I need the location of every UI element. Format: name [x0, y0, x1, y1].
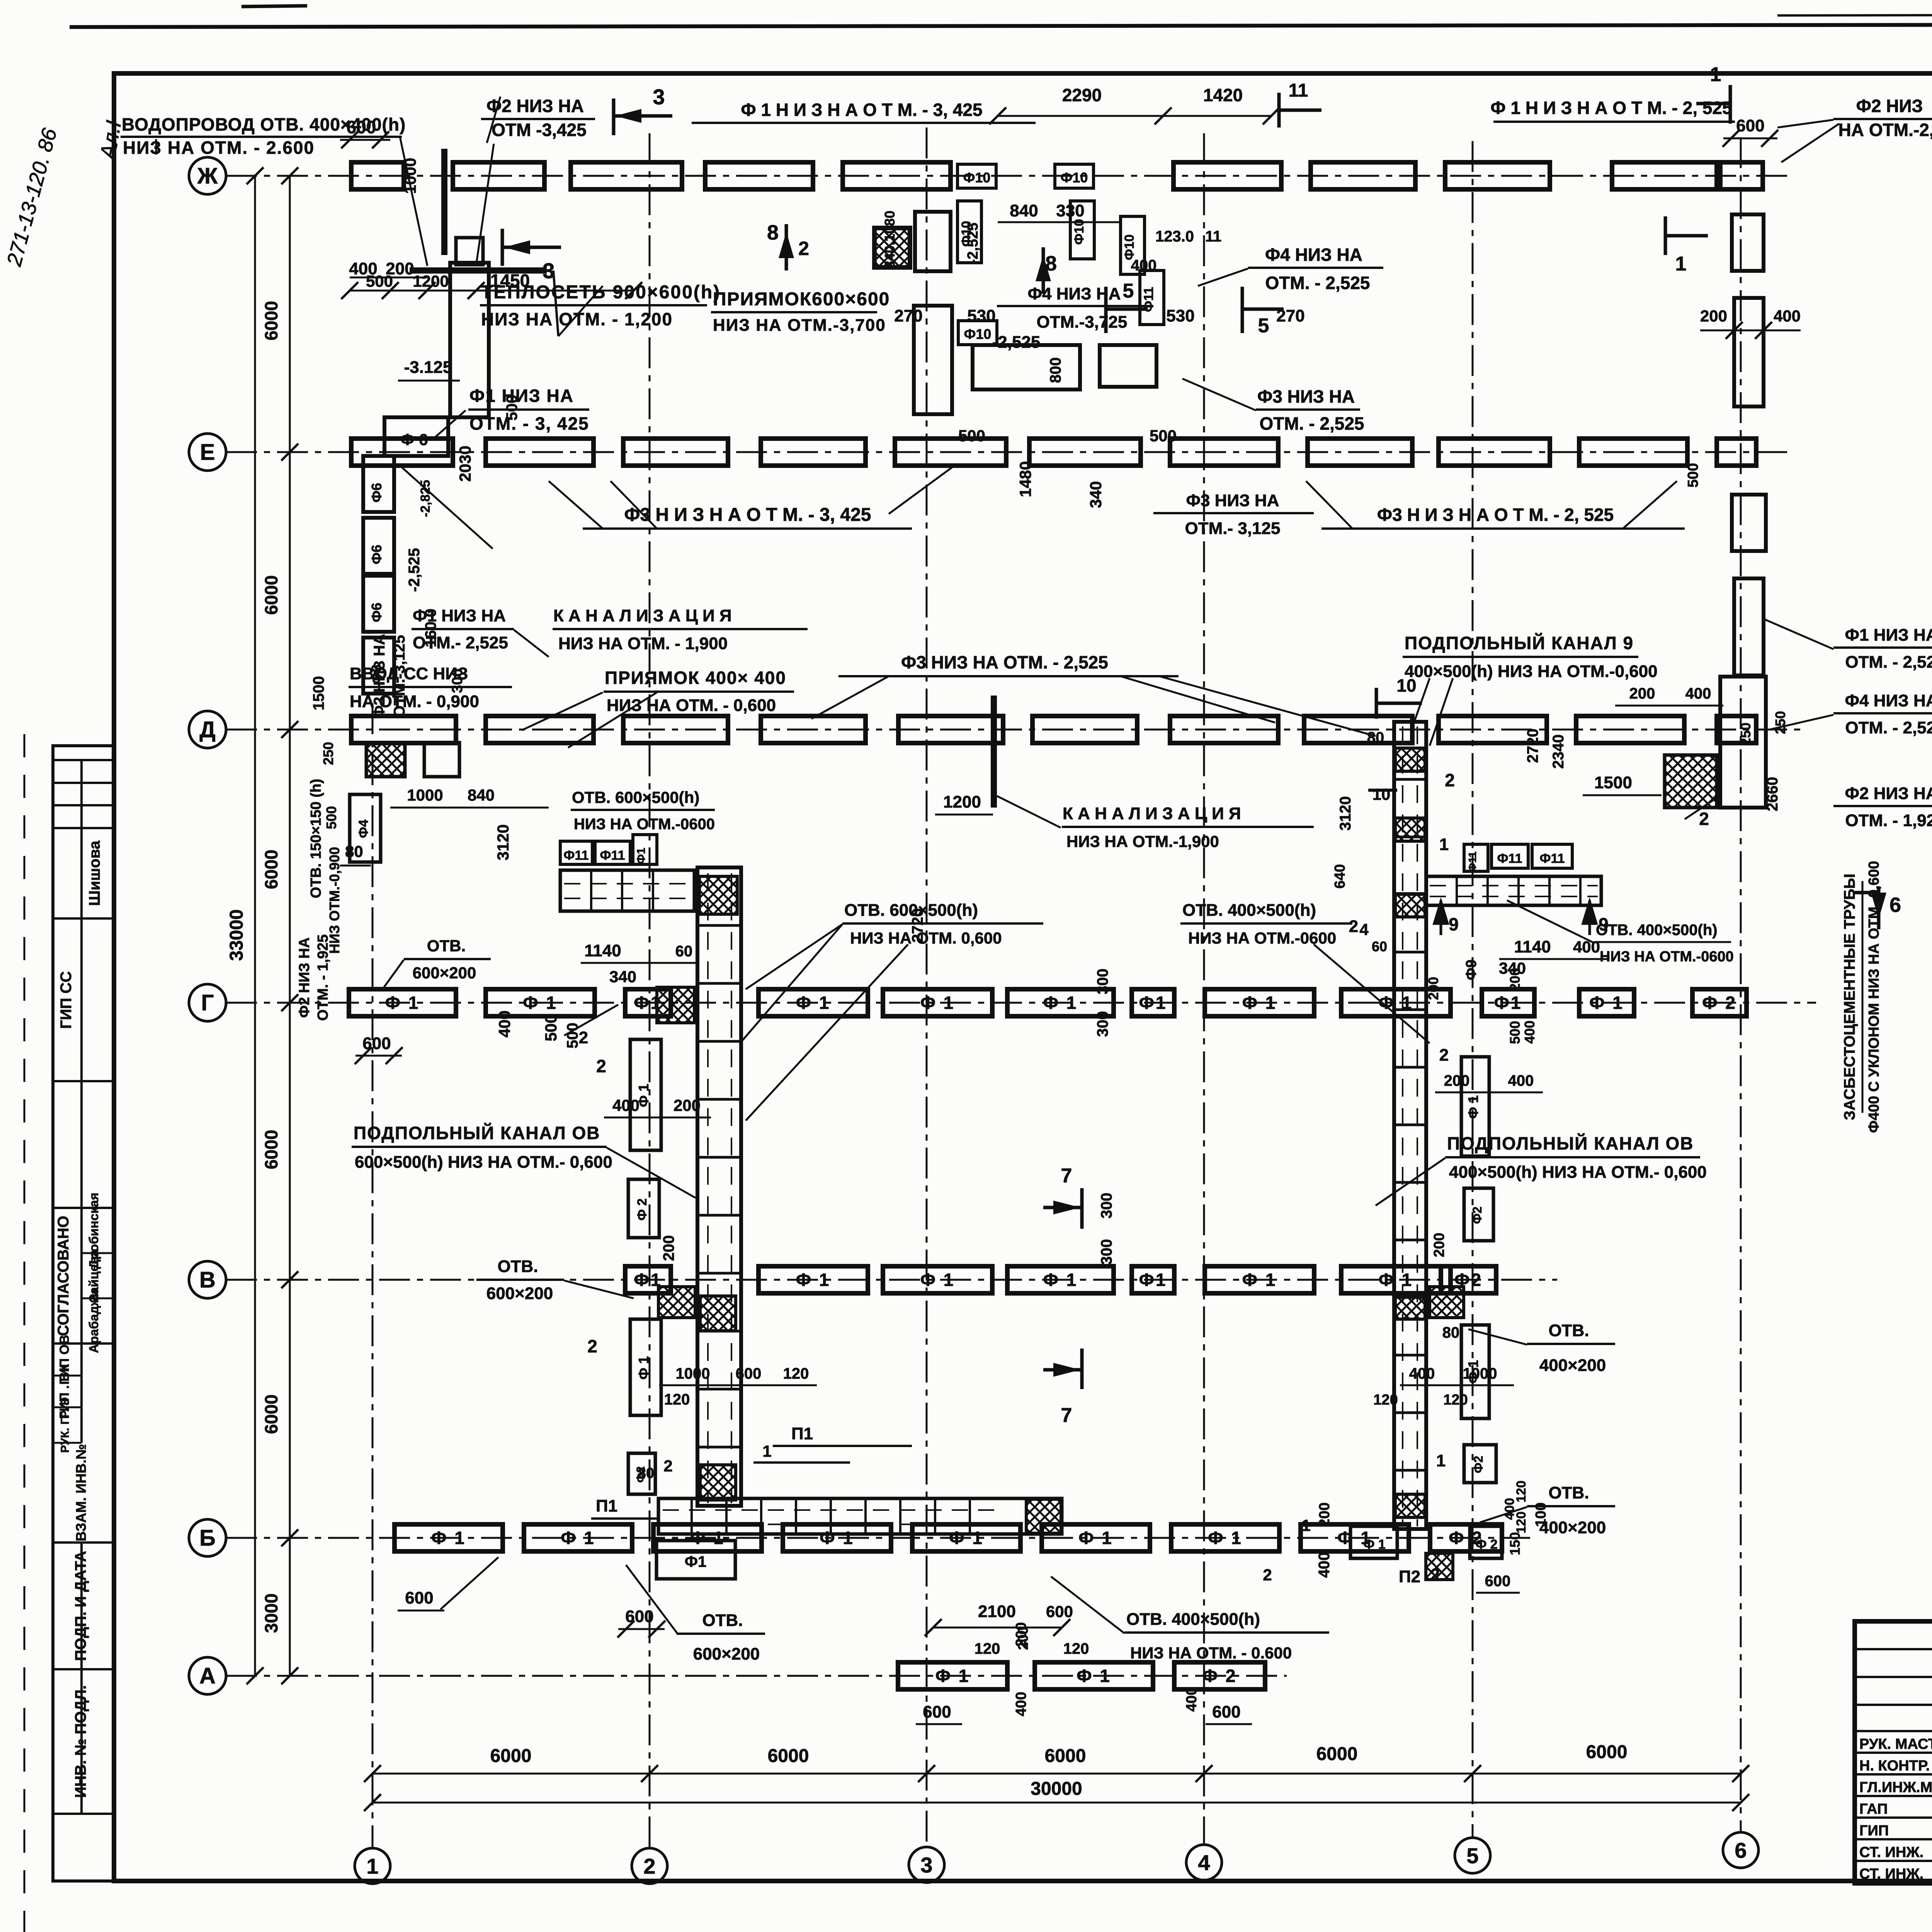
flag 6 arrow: [1877, 887, 1881, 929]
svg-text:1500: 1500: [1594, 773, 1632, 792]
svg-text:РУК. ГР. Э: РУК. ГР. Э: [59, 1397, 71, 1453]
svg-text:СОГЛАСОВАНО: СОГЛАСОВАНО: [55, 1216, 72, 1336]
svg-text:6000: 6000: [261, 575, 281, 615]
svg-text:ОТВ. 150×150 (h): ОТВ. 150×150 (h): [308, 779, 324, 898]
svg-text:ГИП: ГИП: [1859, 1823, 1889, 1839]
svg-text:400: 400: [612, 1096, 639, 1114]
svg-text:600: 600: [1046, 1602, 1073, 1621]
Ф10 small boxes: [957, 164, 996, 188]
svg-text:640: 640: [1332, 864, 1348, 888]
Ф6 vertical stack: [363, 456, 394, 512]
section flag 3 top: [612, 99, 616, 135]
svg-text:Ф 1: Ф 1: [920, 1270, 955, 1290]
svg-text:СТ. ИНЖ.: СТ. ИНЖ.: [1859, 1844, 1923, 1861]
svg-text:ОТВ. 400×500(h): ОТВ. 400×500(h): [1596, 922, 1718, 939]
svg-text:Ф 1: Ф 1: [1363, 1537, 1385, 1552]
hatch pit row В axis5: [1430, 1287, 1464, 1318]
svg-text:600×200: 600×200: [413, 964, 476, 982]
svg-text:1420: 1420: [1203, 85, 1243, 105]
svg-text:Шишова: Шишова: [86, 840, 103, 906]
svg-text:500: 500: [958, 427, 985, 445]
svg-text:ГЛ.ИНЖ.М: ГЛ.ИНЖ.М: [1859, 1779, 1932, 1796]
svg-text:НИЗ НА ОТМ.-1,900: НИЗ НА ОТМ.-1,900: [1066, 832, 1219, 850]
svg-text:400: 400: [1685, 685, 1711, 702]
svg-text:10: 10: [1396, 675, 1416, 696]
svg-text:Н. КОНТР.: Н. КОНТР.: [1859, 1758, 1930, 1774]
axis 4: [1203, 133, 1205, 1845]
svg-text:Ф10: Ф10: [1122, 235, 1137, 260]
svg-text:НИЗ НА ОТМ. - 1,200: НИЗ НА ОТМ. - 1,200: [481, 309, 673, 329]
svg-text:400×200: 400×200: [1539, 1356, 1606, 1375]
svg-text:ОТМ. - 2,525: ОТМ. - 2,525: [1845, 718, 1932, 737]
svg-text:1480: 1480: [1016, 461, 1034, 497]
svg-text:Д: Д: [199, 717, 215, 742]
side blocks along axis-2 wall: [630, 1039, 661, 1150]
svg-text:Ф 1: Ф 1: [523, 993, 558, 1013]
axis 5: [1472, 141, 1474, 1838]
svg-text:Ф 2: Ф 2: [1475, 1537, 1497, 1552]
svg-text:В: В: [199, 1267, 216, 1293]
svg-text:НИЗ НА ОТМ. - 0,600: НИЗ НА ОТМ. - 0,600: [607, 696, 776, 715]
svg-text:НИЗ НА ОТМ. 0,600: НИЗ НА ОТМ. 0,600: [850, 929, 1002, 947]
svg-text:6: 6: [1735, 1838, 1747, 1862]
svg-text:НА ОТМ.-2,525: НА ОТМ.-2,525: [1838, 120, 1932, 140]
axis Б: [226, 1537, 1530, 1539]
top border parallel line: [1777, 14, 1932, 15]
svg-text:ОТМ. - 2,525: ОТМ. - 2,525: [1845, 653, 1932, 672]
svg-text:600×200: 600×200: [693, 1645, 760, 1663]
svg-text:1000: 1000: [401, 158, 419, 194]
теплосеть thick crossing: [441, 149, 447, 255]
svg-text:11: 11: [1289, 80, 1308, 101]
svg-text:ИНВ. № ПОДЛ.: ИНВ. № ПОДЛ.: [72, 1685, 89, 1798]
svg-text:РУК. МАСТ: РУК. МАСТ: [1859, 1736, 1932, 1752]
svg-text:Ф400 С УКЛОНОМ НИЗ НА ОТМ.-0,: Ф400 С УКЛОНОМ НИЗ НА ОТМ.-0,600: [1866, 861, 1882, 1133]
svg-text:ОТВ.: ОТВ.: [1548, 1483, 1589, 1502]
hatch pits in channel axis 2: [699, 876, 737, 914]
svg-text:6000: 6000: [1316, 1744, 1358, 1764]
svg-text:3: 3: [653, 85, 665, 109]
svg-text:2: 2: [1699, 809, 1709, 829]
svg-text:300: 300: [1094, 969, 1111, 995]
svg-text:ОТВ.: ОТВ.: [427, 937, 466, 955]
svg-text:1: 1: [366, 1854, 378, 1878]
svg-text:200: 200: [1013, 1622, 1029, 1646]
svg-text:840: 840: [1010, 201, 1038, 220]
flag 1 lower right: [1664, 216, 1667, 255]
svg-text:ВЗАМ. ИНВ.№: ВЗАМ. ИНВ.№: [73, 1444, 89, 1541]
svg-text:ОТМ. - 1,925: ОТМ. - 1,925: [315, 934, 331, 1021]
svg-text:2: 2: [1349, 917, 1358, 936]
svg-text:600: 600: [1485, 1573, 1511, 1590]
svg-text:800: 800: [1047, 357, 1064, 383]
axis Е: [226, 451, 1793, 453]
axis В: [226, 1279, 1557, 1281]
svg-text:1: 1: [1675, 253, 1687, 275]
svg-text:Ф 1 Н И З Н А О: Ф 1 Н И З Н А О Т М. - 2, 525: [1490, 98, 1732, 118]
svg-text:400: 400: [1573, 938, 1600, 956]
left dim line outer: [254, 176, 256, 1676]
flags 5: [1104, 287, 1108, 333]
svg-text:10: 10: [1372, 785, 1391, 803]
svg-text:Ф 1: Ф 1: [935, 1666, 970, 1686]
svg-text:ПОДПОЛЬНЫЙ КАНАЛ ОВ: ПОДПОЛЬНЫЙ КАНАЛ ОВ: [354, 1123, 600, 1143]
svg-text:Ф 2: Ф 2: [635, 1198, 650, 1220]
svg-text:Ф 1: Ф 1: [1077, 1666, 1111, 1686]
axis 2: [649, 133, 651, 1848]
svg-text:600: 600: [923, 1702, 951, 1721]
underground channel wall on axis 5: [1394, 722, 1426, 1529]
svg-text:400×500(h) НИЗ НА ОТМ.-0,600: 400×500(h) НИЗ НА ОТМ.-0,600: [1405, 662, 1658, 681]
svg-text:1: 1: [1710, 63, 1721, 86]
svg-text:Ф 1: Ф 1: [920, 993, 955, 1013]
svg-text:ОТВ.: ОТВ.: [1548, 1321, 1589, 1340]
svg-text:4: 4: [1198, 1850, 1210, 1875]
svg-text:ОТВ. 600×500(h): ОТВ. 600×500(h): [844, 901, 978, 920]
svg-text:7: 7: [1061, 1404, 1072, 1427]
теплосеть leader: [558, 286, 603, 336]
svg-text:2: 2: [596, 1056, 606, 1076]
svg-text:2: 2: [643, 1854, 655, 1878]
Ф11 boxes row left: [560, 841, 592, 864]
svg-text:500: 500: [1507, 1021, 1523, 1044]
svg-text:Ф4: Ф4: [356, 820, 371, 838]
svg-text:ГИП СС: ГИП СС: [58, 971, 75, 1029]
svg-text:Ф2: Ф2: [1470, 1206, 1484, 1224]
svg-text:-2,525: -2,525: [992, 333, 1041, 352]
svg-text:5: 5: [1258, 315, 1269, 337]
svg-text:-2,525: -2,525: [406, 548, 423, 592]
svg-text:200: 200: [1629, 685, 1655, 702]
Ф11 boxes row right: [1464, 844, 1488, 871]
svg-text:ЗАСБЕСТОЦЕМЕНТНЫЕ ТРУБЫ: ЗАСБЕСТОЦЕМЕНТНЫЕ ТРУБЫ: [1841, 874, 1858, 1120]
svg-text:Ф3 НИЗ НА: Ф3 НИЗ НА: [1186, 491, 1279, 510]
hatch pits in channel axis 5: [1395, 748, 1425, 771]
svg-text:400: 400: [1774, 307, 1801, 325]
svg-text:ОТВ. 400×500(h): ОТВ. 400×500(h): [1126, 1610, 1260, 1629]
svg-text:НА ОТМ. - 0,900: НА ОТМ. - 0,900: [350, 692, 479, 711]
svg-text:Ф2 НИЗ: Ф2 НИЗ: [1856, 96, 1923, 116]
svg-text:2340: 2340: [1550, 735, 1567, 769]
svg-text:Ф 1: Ф 1: [820, 1528, 854, 1548]
svg-text:60: 60: [1372, 939, 1387, 954]
svg-text:3000: 3000: [261, 1594, 281, 1633]
svg-text:400: 400: [1508, 1072, 1534, 1089]
svg-text:ОТМ.- 2,525: ОТМ.- 2,525: [413, 633, 508, 652]
svg-text:Ф1: Ф1: [1494, 993, 1522, 1013]
svg-text:80: 80: [1367, 729, 1384, 746]
svg-text:1200: 1200: [943, 793, 981, 811]
svg-text:Б: Б: [199, 1526, 216, 1551]
svg-text:300: 300: [1098, 1193, 1115, 1219]
svg-text:Ф3 НИЗ НА ОТМ. - 2,525: Ф3 НИЗ НА ОТМ. - 2,525: [901, 652, 1108, 672]
svg-text:Ф6: Ф6: [369, 603, 384, 622]
svg-text:500: 500: [542, 1014, 560, 1041]
svg-text:ОТМ.- 3,125: ОТМ.- 3,125: [1185, 519, 1281, 538]
svg-text:1: 1: [1439, 835, 1449, 854]
svg-text:К А Н А Л И З А Ц И Я: К А Н А Л И З А Ц И Я: [1063, 804, 1241, 823]
svg-text:120: 120: [1063, 1640, 1089, 1657]
svg-text:НИЗ НА ОТМ.-0600: НИЗ НА ОТМ.-0600: [574, 816, 715, 833]
side blocks along axis-5 wall: [1461, 1057, 1489, 1156]
svg-text:ПРИЯМОК600×600: ПРИЯМОК600×600: [713, 289, 890, 310]
svg-text:ПОДПОЛЬНЫЙ КАНАЛ ОВ: ПОДПОЛЬНЫЙ КАНАЛ ОВ: [1447, 1133, 1694, 1153]
svg-text:Ф 1: Ф 1: [796, 993, 831, 1013]
axis-6 vertical foundation blocks: [1732, 214, 1764, 271]
svg-text:Ф 1: Ф 1: [1242, 993, 1277, 1013]
svg-text:120: 120: [783, 1365, 809, 1382]
svg-text:600: 600: [1212, 1702, 1240, 1721]
svg-text:200: 200: [660, 1235, 677, 1261]
svg-text:6: 6: [1889, 893, 1901, 917]
svg-text:9: 9: [1449, 914, 1459, 934]
sheet outer top border: [70, 24, 1932, 27]
svg-text:500: 500: [323, 806, 339, 829]
svg-text:400: 400: [1316, 1552, 1333, 1578]
svg-text:Ф3 НИЗ НА: Ф3 НИЗ НА: [1257, 386, 1355, 406]
svg-text:Е: Е: [200, 440, 215, 465]
svg-text:600: 600: [405, 1588, 433, 1607]
svg-text:1500: 1500: [310, 676, 327, 711]
foundation chain row В: [625, 1266, 671, 1293]
foundation chain row Ж: [351, 162, 404, 189]
svg-text:2: 2: [798, 238, 809, 259]
title block main stamp: [1855, 1621, 1932, 1883]
svg-text:П1: П1: [791, 1424, 813, 1443]
svg-text:2100: 2100: [978, 1602, 1016, 1621]
flag 1 top right: [1729, 85, 1732, 124]
svg-text:Ф 1: Ф 1: [431, 1528, 466, 1548]
right Д cluster col6: [1720, 677, 1766, 808]
svg-text:2720: 2720: [1524, 729, 1541, 763]
svg-text:-2,825: -2,825: [418, 480, 433, 517]
svg-text:Ф10: Ф10: [1061, 170, 1088, 185]
svg-text:100: 100: [1533, 1502, 1549, 1527]
svg-text:120: 120: [664, 1391, 690, 1408]
svg-text:Ф2 НИЗ НА: Ф2 НИЗ НА: [486, 96, 584, 116]
svg-text:Ф3 Н И З Н А О: Ф3 Н И З Н А О Т М. - 2, 525: [1377, 505, 1614, 525]
svg-text:600: 600: [362, 1034, 391, 1053]
svg-text:Ф1 НИЗ НА: Ф1 НИЗ НА: [1845, 626, 1932, 645]
sheet outer left border (dashed): [24, 734, 26, 1932]
svg-text:300: 300: [1094, 1011, 1111, 1037]
Ф6 box horizontal: [384, 417, 448, 456]
svg-text:Ф 1: Ф 1: [561, 1528, 595, 1548]
svg-text:400: 400: [1184, 1687, 1200, 1711]
svg-text:Ф 1: Ф 1: [1043, 993, 1078, 1013]
svg-text:3120: 3120: [494, 824, 512, 860]
pit rects center: [915, 212, 951, 271]
svg-text:Ф10: Ф10: [964, 326, 992, 342]
svg-text:К А Н А Л И З А Ц И Я: К А Н А Л И З А Ц И Я: [553, 606, 732, 625]
svg-text:ГАП: ГАП: [1859, 1801, 1888, 1817]
svg-text:400: 400: [495, 1010, 514, 1037]
svg-text:340: 340: [609, 968, 636, 986]
strip П1 on axis Б: [658, 1498, 1062, 1534]
foundation chain row Е: [351, 439, 453, 466]
svg-text:ОТВ. 600×500(h): ОТВ. 600×500(h): [572, 788, 699, 806]
svg-text:1000: 1000: [1463, 1365, 1497, 1382]
small hatch pit axis2 row В: [658, 1287, 695, 1318]
leaders row E left: [400, 466, 493, 549]
svg-text:3: 3: [920, 1853, 932, 1877]
svg-text:Ф2: Ф2: [1471, 1456, 1485, 1473]
svg-text:НИЗ НА ОТМ.-3,700: НИЗ НА ОТМ.-3,700: [713, 316, 886, 335]
svg-text:Ф11: Ф11: [1497, 851, 1522, 866]
svg-text:600: 600: [736, 1365, 762, 1382]
svg-text:Ф3 Н И З Н А О Т М. -: Ф3 Н И З Н А О Т М. - 3, 425: [624, 505, 871, 525]
svg-text:6000: 6000: [768, 1746, 809, 1766]
svg-text:Ф9: Ф9: [1463, 959, 1480, 980]
svg-text:ОТМ. - 3, 425: ОТМ. - 3, 425: [469, 413, 589, 434]
svg-text:840: 840: [468, 786, 495, 804]
svg-text:330: 330: [1056, 201, 1084, 220]
svg-text:Ф1: Ф1: [635, 848, 648, 864]
svg-text:ОТМ.-3,725: ОТМ.-3,725: [1037, 313, 1128, 332]
svg-text:2290: 2290: [1062, 85, 1102, 105]
svg-text:Ф10: Ф10: [963, 170, 991, 185]
svg-text:Ф 1: Ф 1: [796, 1270, 831, 1290]
svg-text:200: 200: [1444, 1072, 1470, 1089]
svg-text:600: 600: [1736, 116, 1764, 135]
svg-text:7: 7: [1061, 1165, 1072, 1187]
svg-text:ОТМ. - 1,925: ОТМ. - 1,925: [1845, 811, 1932, 830]
svg-text:2: 2: [587, 1336, 597, 1356]
left dim line inner: [289, 176, 291, 1676]
svg-text:6000: 6000: [1586, 1742, 1628, 1762]
svg-text:80: 80: [1442, 1324, 1460, 1341]
водопровод diagonal pipe lines: [400, 137, 427, 266]
svg-text:500: 500: [366, 272, 393, 290]
svg-text:270: 270: [894, 306, 922, 325]
svg-text:Ф4 НИЗ НА: Ф4 НИЗ НА: [1845, 691, 1932, 710]
приямок hatched pit: [874, 228, 910, 267]
svg-text:530: 530: [967, 306, 995, 325]
svg-text:123.0: 123.0: [1155, 228, 1194, 245]
svg-text:500: 500: [1685, 463, 1701, 487]
left stamp column table: [53, 746, 114, 1881]
svg-text:5: 5: [1466, 1844, 1478, 1868]
svg-text:400×200: 400×200: [1539, 1518, 1606, 1537]
cluster axis Д col1: [366, 743, 405, 777]
axis 1: [372, 703, 374, 1848]
svg-text:Ф1: Ф1: [685, 1553, 706, 1570]
svg-text:Ф 1 Н И З Н А О Т М.: Ф 1 Н И З Н А О Т М. - 3, 425: [741, 100, 982, 120]
svg-text:Ф 1: Ф 1: [949, 1528, 984, 1548]
svg-text:200: 200: [1431, 1233, 1447, 1257]
svg-text:-2,525: -2,525: [965, 223, 981, 264]
svg-text:Ф2 НИЗ НА: Ф2 НИЗ НА: [1845, 784, 1932, 803]
underground channel wall on axis 2: [697, 867, 741, 1506]
axis 6: [1740, 137, 1742, 1832]
svg-text:250: 250: [320, 742, 336, 765]
svg-text:600×500(h) НИЗ НА ОТМ.- 0,600: 600×500(h) НИЗ НА ОТМ.- 0,600: [355, 1153, 612, 1172]
svg-text:1000: 1000: [407, 786, 443, 804]
svg-text:Ф4 НИЗ НА: Ф4 НИЗ НА: [1265, 245, 1362, 265]
svg-text:2660: 2660: [1764, 777, 1781, 811]
svg-text:6000: 6000: [261, 1395, 281, 1434]
svg-text:Ф 2: Ф 2: [1702, 993, 1737, 1013]
svg-text:Ф 2: Ф 2: [1202, 1666, 1237, 1686]
svg-text:30000: 30000: [1031, 1779, 1082, 1799]
svg-text:2: 2: [1263, 1566, 1272, 1584]
foundation chain row Б: [395, 1524, 503, 1551]
svg-text:8: 8: [767, 221, 779, 244]
svg-text:Ф2 НИЗ НА: Ф2 НИЗ НА: [296, 937, 313, 1018]
svg-text:Ф 6: Ф 6: [401, 430, 428, 449]
svg-text:33000: 33000: [226, 909, 247, 961]
svg-text:120: 120: [1373, 1392, 1398, 1408]
svg-text:Ф 1: Ф 1: [1242, 1270, 1277, 1290]
section flag 3 lower: [501, 229, 504, 266]
svg-text:Ф 1: Ф 1: [385, 993, 420, 1013]
svg-text:2030: 2030: [456, 446, 474, 481]
strip П2 near axis Д right: [1426, 876, 1601, 905]
axis Г: [226, 1002, 1816, 1004]
svg-text:Ф1 НИЗ НА: Ф1 НИЗ НА: [413, 606, 506, 625]
svg-text:340: 340: [1087, 481, 1105, 508]
svg-text:НИЗ НА ОТМ. - 1,900: НИЗ НА ОТМ. - 1,900: [558, 634, 728, 653]
svg-text:Арабаджи: Арабаджи: [87, 1289, 101, 1353]
svg-text:60: 60: [675, 943, 693, 960]
svg-text:80: 80: [345, 842, 363, 861]
bottom dim line spans: [372, 1773, 1741, 1775]
svg-text:1: 1: [1436, 1451, 1446, 1470]
svg-text:Ф11: Ф11: [1540, 851, 1565, 866]
svg-text:ТЕПЛОСЕТЬ 900×600(h): ТЕПЛОСЕТЬ 900×600(h): [481, 282, 721, 303]
svg-text:ОТВ.: ОТВ.: [497, 1257, 538, 1276]
svg-text:600: 600: [625, 1607, 653, 1626]
svg-text:НИЗ НА ОТМ. - 2.600: НИЗ НА ОТМ. - 2.600: [123, 138, 315, 158]
svg-text:1: 1: [1301, 1516, 1310, 1534]
svg-text:400: 400: [1013, 1692, 1029, 1716]
svg-text:ПОДПОЛЬНЫЙ КАНАЛ 9: ПОДПОЛЬНЫЙ КАНАЛ 9: [1405, 633, 1634, 653]
svg-text:А: А: [199, 1663, 216, 1689]
svg-text:Ф6: Ф6: [369, 483, 384, 503]
svg-text:1000: 1000: [676, 1365, 710, 1382]
svg-text:Ф11: Ф11: [600, 848, 625, 863]
svg-text:НИЗ НА ОТМ. - 0.600: НИЗ НА ОТМ. - 0.600: [1130, 1644, 1292, 1662]
svg-text:ПОДП. И ДАТА: ПОДП. И ДАТА: [72, 1551, 89, 1661]
svg-text:ОТВ.: ОТВ.: [702, 1611, 743, 1630]
svg-text:ВВОД СС НИЗ: ВВОД СС НИЗ: [350, 664, 468, 683]
svg-text:Ф 1: Ф 1: [1078, 1528, 1113, 1548]
svg-text:ОТМ. - 2,525: ОТМ. - 2,525: [1260, 413, 1364, 434]
svg-text:ВОДОПРОВОД ОТВ. 400×400(h): ВОДОПРОВОД ОТВ. 400×400(h): [122, 114, 406, 134]
svg-text:200: 200: [1316, 1502, 1333, 1527]
svg-text:НИЗ НА ОТМ.-0600: НИЗ НА ОТМ.-0600: [1600, 949, 1734, 965]
svg-text:530: 530: [1166, 306, 1194, 325]
flag 11 top: [1277, 93, 1281, 128]
svg-text:500: 500: [1150, 427, 1177, 445]
svg-text:ОТМ. - 2,525: ОТМ. - 2,525: [1265, 273, 1370, 293]
svg-text:3120: 3120: [1337, 796, 1354, 831]
svg-text:150: 150: [1507, 1532, 1523, 1555]
svg-text:6000: 6000: [261, 301, 281, 340]
svg-text:200: 200: [1425, 977, 1441, 1000]
svg-text:250: 250: [1738, 723, 1753, 746]
foundation chain row А: [898, 1662, 1007, 1689]
pit 800 rect: [973, 345, 1080, 389]
svg-text:6000: 6000: [490, 1746, 532, 1766]
svg-text:Ф 1: Ф 1: [1043, 1270, 1078, 1290]
svg-text:300: 300: [1098, 1239, 1115, 1265]
svg-text:11: 11: [1205, 228, 1221, 245]
svg-text:120: 120: [975, 1640, 1000, 1657]
svg-text:4: 4: [1359, 920, 1369, 939]
pit rect top-left: [450, 263, 489, 417]
svg-text:3: 3: [543, 259, 554, 283]
